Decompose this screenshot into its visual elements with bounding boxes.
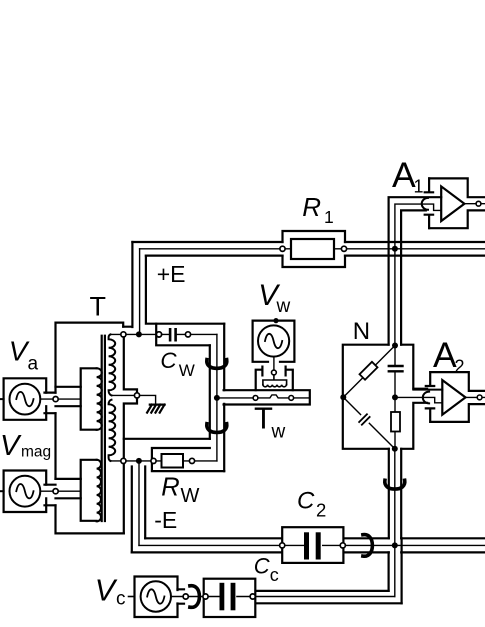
wire coax H2 shield bottom bbox=[132, 551, 485, 553]
choke (current equalizer) right of C2 bbox=[363, 535, 373, 557]
node secondary bottom (-E tap) bbox=[136, 458, 142, 464]
transformer Tw winding bbox=[263, 385, 287, 387]
Vc output wire bbox=[171, 596, 206, 598]
svg-text:+E: +E bbox=[157, 261, 186, 287]
resistor Rw body bbox=[162, 454, 184, 468]
Va connector sleeve bbox=[45, 387, 81, 413]
Vmag left stub bbox=[0, 490, 4, 492]
svg-text:C: C bbox=[297, 487, 315, 514]
node N left bbox=[340, 394, 346, 400]
node N bottom bbox=[392, 446, 398, 452]
op-amp A2 box bbox=[423, 372, 485, 422]
resistor R1 shield box bbox=[283, 231, 346, 267]
wire N to A2 top input bbox=[413, 388, 442, 391]
svg-text:A: A bbox=[433, 335, 457, 375]
svg-text:V: V bbox=[0, 430, 22, 462]
Tw center conductor with pass-through bbox=[217, 395, 310, 398]
op-amp A1 input isolation arc bbox=[422, 198, 428, 210]
Vmag output wire bbox=[40, 490, 80, 492]
transformer T secondary winding upper bbox=[109, 334, 116, 395]
source Vmag box bbox=[4, 471, 47, 513]
svg-text:1: 1 bbox=[324, 207, 334, 227]
capacitor Cw shield box bbox=[156, 324, 224, 346]
wire coax H2 shield top (-E / C2 net) bbox=[145, 537, 485, 539]
wire secondary bottom to Rw bbox=[110, 460, 154, 462]
Vw output stem bbox=[273, 357, 275, 371]
svg-text:w: w bbox=[276, 296, 291, 317]
svg-text:-E: -E bbox=[154, 507, 177, 533]
svg-text:C: C bbox=[160, 348, 177, 373]
wire -E drop from Rw node bbox=[132, 467, 145, 553]
svg-text:w: w bbox=[271, 422, 286, 443]
wire secondary center tap bbox=[112, 395, 156, 404]
svg-text:A: A bbox=[392, 155, 416, 195]
resistor R1 body bbox=[291, 239, 334, 259]
choke (current equalizer) on V3 coax bbox=[385, 480, 405, 489]
wire coax H1 shield top (R1 net) bbox=[132, 241, 485, 243]
wire secondary top to Cw bbox=[110, 333, 156, 335]
source Vw circle bbox=[258, 325, 289, 356]
shelf inner shield bbox=[124, 438, 210, 440]
source Vw box bbox=[253, 321, 295, 362]
op-amp A1 triangle bbox=[441, 186, 464, 221]
source Va circle bbox=[10, 384, 41, 415]
wire coax V2 (junction to bridge N) bbox=[389, 242, 402, 345]
Tw coax bar shields bbox=[224, 390, 310, 404]
resistor in N (diagonal) bbox=[360, 362, 378, 380]
svg-text:C: C bbox=[254, 553, 270, 578]
Va left stub bbox=[0, 398, 4, 400]
Rw wires bbox=[154, 460, 217, 462]
transformer T shield box bbox=[56, 323, 124, 393]
svg-text:a: a bbox=[28, 353, 39, 374]
source Va box bbox=[4, 378, 47, 420]
Vc left stub bbox=[129, 596, 135, 598]
capacitor in N center branch bbox=[389, 366, 403, 371]
svg-text:2: 2 bbox=[455, 357, 465, 377]
transformer T primary 1 winding bbox=[97, 368, 102, 430]
resistor in N center branch bbox=[391, 412, 400, 432]
bridge N top-left diagonal bbox=[343, 346, 395, 398]
transformer T primary 2 bracket bbox=[81, 460, 97, 521]
Vw connector flange bbox=[262, 367, 285, 376]
node junction R1 net bbox=[392, 246, 398, 252]
svg-text:R: R bbox=[161, 473, 179, 501]
capacitor in N (diagonal plates) bbox=[356, 411, 372, 427]
op-amp A2 output bbox=[466, 396, 485, 398]
bridge N center branch wire bbox=[394, 346, 396, 449]
wire coax down right of Cw bbox=[210, 324, 224, 471]
node Vw top bbox=[273, 318, 278, 323]
node secondary top bbox=[136, 331, 142, 337]
ground (hatched) bbox=[147, 405, 165, 413]
Vmag connector sleeve bbox=[45, 479, 81, 505]
svg-text:1: 1 bbox=[414, 177, 424, 197]
svg-text:R: R bbox=[302, 192, 321, 222]
wire coax H1 center (R1 net) bbox=[140, 248, 485, 250]
capacitor Cw wires bbox=[159, 333, 217, 335]
svg-text:T: T bbox=[254, 401, 273, 436]
Vc connector sleeve bbox=[178, 589, 185, 603]
svg-text:V: V bbox=[95, 573, 118, 607]
node N top bbox=[392, 343, 398, 349]
wire coax V4 (bottom junction down to Cc corner) bbox=[389, 538, 402, 603]
Va connector circle bbox=[53, 397, 58, 402]
capacitor Cc shield box bbox=[204, 579, 256, 617]
svg-text:W: W bbox=[179, 361, 195, 380]
op-amp A1 box bbox=[422, 178, 485, 228]
bridge N bottom-left diagonal bbox=[343, 397, 395, 449]
wire N mid to A2 bbox=[395, 397, 442, 402]
transformer T primary 1 bracket bbox=[81, 368, 97, 429]
transformer T primary 2 winding bbox=[97, 460, 101, 522]
capacitor Cw plates bbox=[169, 328, 172, 342]
svg-text:T: T bbox=[90, 292, 107, 322]
op-amp A2 input isolation arc bbox=[423, 392, 429, 404]
svg-text:c: c bbox=[116, 589, 126, 610]
Vmag connector circle bbox=[53, 489, 58, 494]
svg-text:2: 2 bbox=[316, 500, 326, 521]
capacitor C2 plates bbox=[304, 532, 309, 559]
wire coax H2 center bbox=[139, 544, 485, 546]
capacitor C2 shield box bbox=[282, 527, 343, 563]
svg-text:mag: mag bbox=[21, 443, 51, 460]
source Vmag circle bbox=[10, 476, 41, 507]
C2 wires bbox=[282, 544, 343, 546]
svg-text:N: N bbox=[353, 318, 370, 345]
choke (current equalizer) right of Vc bbox=[190, 586, 200, 608]
choke (current equalizer) upper on Cw coax bbox=[207, 360, 227, 369]
svg-text:W: W bbox=[181, 485, 200, 507]
wire coax corner left (to Cw) bbox=[123, 242, 132, 327]
wire coax H3 (Cc net to corner) bbox=[255, 591, 401, 603]
wire coax V1 (junction to A1) bbox=[389, 197, 442, 242]
svg-text:c: c bbox=[270, 565, 279, 585]
wire coax V3 (bridge N to bottom junction) bbox=[389, 449, 401, 539]
source Vc box bbox=[135, 577, 178, 618]
transformer T core bbox=[102, 336, 105, 521]
node N mid bbox=[392, 394, 398, 400]
op-amp A1 output bbox=[464, 203, 485, 205]
node Tw tap bbox=[214, 395, 220, 401]
resistor Rw shield box bbox=[152, 448, 224, 471]
wire coax H1 shield bottom (R1 net) bbox=[146, 255, 485, 257]
Va output wire bbox=[40, 398, 80, 400]
transformer T secondary winding lower bbox=[109, 400, 116, 461]
source Vc circle bbox=[141, 581, 171, 611]
transformer Tw housing bbox=[256, 370, 293, 391]
op-amp A2 triangle bbox=[442, 380, 465, 415]
capacitor Cc plates bbox=[220, 583, 225, 611]
choke (current equalizer) lower on Cw coax bbox=[207, 424, 227, 433]
R1 connector circles bbox=[280, 246, 285, 251]
transformer Tw primary hood bbox=[263, 375, 287, 385]
Cc wires bbox=[204, 596, 256, 598]
node bottom junction bbox=[392, 542, 398, 548]
bridge N shield box bbox=[343, 345, 427, 449]
